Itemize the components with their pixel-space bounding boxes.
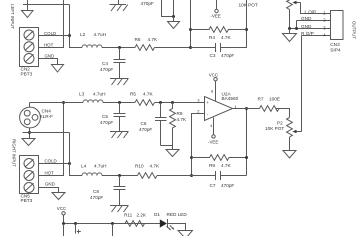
wire gnd pin2 row [297,21,331,29]
inductor L3 4.7uH [30,91,106,102]
node hot/L3 junction [62,101,65,104]
wire R O/P row [302,35,331,37]
wire L2 to R6 [102,47,135,49]
potentiometer P1 10K POT (cut) [239,0,301,29]
svg-text:VCC: VCC [57,206,66,211]
svg-text:GND: GND [45,182,55,187]
node R4 left [189,28,192,31]
connector CN5 PBT3 (right input) [20,156,39,204]
capacitor C3 470pF (feedback) [191,43,235,58]
svg-text:L4: L4 [81,163,87,168]
ground C5 (hatched) [110,132,129,139]
svg-text:C3: C3 [210,53,216,58]
svg-text:C5: C5 [102,114,108,119]
potentiometer P2 10K POT [265,118,302,138]
node rail VCC [62,222,65,225]
wire L4 to R10 [102,175,138,177]
svg-text:RIGHT INPUT: RIGHT INPUT [12,139,17,167]
wire R5 to op-amp pin 3 [155,102,205,104]
chassis ground (top left) [22,0,34,18]
svg-text:4.7uH: 4.7uH [94,163,107,168]
svg-text:XLR-F: XLR-F [40,114,54,119]
ground P2 [283,151,296,159]
svg-text:470pF: 470pF [221,53,234,58]
node C3 left / R6 junction [189,46,192,49]
svg-text:-VEE: -VEE [208,140,218,145]
svg-text:+: + [206,100,209,105]
svg-text:4.7uH: 4.7uH [94,32,107,37]
svg-text:4.7uH: 4.7uH [93,91,106,96]
node R9 right [245,156,248,159]
wire R6 to feedback node [155,47,191,49]
power -VEE (U2A pin 4) [208,118,218,145]
wire XLR top to L3 row [29,103,31,108]
svg-text:PBT3: PBT3 [21,198,33,203]
svg-text:470pF: 470pF [100,67,113,72]
ground C6/R8 [166,150,179,157]
resistor R11 2.2K [124,212,147,226]
power -VEE (top, cut op-amp pin) [211,0,221,18]
ground output common [283,29,297,42]
capacitor C8 470pF [90,176,126,206]
ground CN2 [52,65,64,73]
node rail C9 [74,222,77,225]
wire cold row CN2 [39,35,70,37]
svg-text:PBT3: PBT3 [21,71,33,76]
capacitor C6 470pF [139,103,167,146]
wire R10 to C7 node [157,175,192,177]
node R8 tap [171,101,174,104]
connector CN3 SIP4 [330,11,343,53]
node top cap junction [172,15,175,18]
capacitor C4 470pF [100,48,126,79]
svg-text:10K POT: 10K POT [239,2,258,7]
svg-text:R4: R4 [209,35,215,40]
wire inverting node riser x=190.5 [190,0,192,48]
svg-text:2.2K: 2.2K [137,212,148,217]
svg-text:VCC: VCC [209,72,218,77]
svg-text:R9: R9 [209,163,215,168]
resistor R5 4.7K [130,91,155,105]
svg-text:4.7K: 4.7K [221,35,232,40]
svg-text:4.7K: 4.7K [148,37,159,42]
svg-text:4.7K: 4.7K [221,163,232,168]
svg-text:SIP4: SIP4 [330,47,341,52]
svg-text:HOT: HOT [45,170,55,175]
svg-text:470pF: 470pF [139,127,152,132]
svg-text:GND: GND [45,54,55,59]
wire hot riser x=63.5 [39,0,64,48]
node C7 left [190,174,193,177]
svg-text:C6: C6 [141,121,147,126]
svg-text:COLD: COLD [45,159,57,164]
wire output riser x=246.5 (down) [246,109,248,176]
wire cold riser to L4 [70,133,83,176]
node gnd tie [295,27,298,30]
capacitor C9 (electrolytic, cut) [76,224,81,234]
svg-text:470pF: 470pF [221,183,234,188]
svg-text:C4: C4 [102,61,108,66]
svg-text:R6: R6 [135,37,141,42]
power VCC (bottom rail) [57,206,66,223]
node cold-right junction [68,162,71,165]
svg-text:LEFT INPUT: LEFT INPUT [10,4,15,29]
capacitor C5 470pF [100,103,126,132]
inductor L2 4.7uH [80,32,106,47]
svg-text:P2: P2 [277,121,283,126]
svg-text:HOT: HOT [44,42,54,47]
wire XLR shield down [29,128,31,139]
svg-text:R11: R11 [124,212,133,217]
power VCC (U2A pin 8) [209,72,218,101]
svg-text:COLD: COLD [44,31,56,36]
node output junction [245,107,248,110]
wire P2 bottom [289,137,291,151]
svg-text:CN4: CN4 [42,109,52,114]
wire gnd pin3 row [290,28,331,30]
svg-text:470pF: 470pF [100,120,113,125]
connector CN4 XLR-F [20,107,54,128]
wire rail drop x=112.5 (cut) [112,224,114,237]
ground CN5 [52,193,65,200]
wire cold riser x=69.5 [70,5,83,48]
svg-text:R10: R10 [135,163,144,168]
svg-text:GND: GND [301,16,312,21]
wire C6/R8 bottom [161,146,173,150]
wire D1 to ground [168,224,186,231]
node R9 left [190,156,193,159]
svg-text:L3: L3 [79,91,85,96]
node XLR cold [28,131,31,134]
node cold-left junction [68,34,71,37]
ground LED (cut) [178,231,193,239]
node C8 tap [118,174,121,177]
wire output riser x=246.5 (top) [221,0,247,48]
wire pin2 to feedback node [192,114,205,176]
resistor R8 4.7K [170,103,187,146]
svg-text:OUTPUT: OUTPUT [352,21,357,39]
wire CN5 hot riser x=63.5 [39,103,64,176]
ground C4 (hatched) [110,79,129,86]
svg-text:R8: R8 [177,111,183,116]
op-amp U2A BA4560 [197,89,238,129]
wire R O/P riser x=301.5 [301,36,303,132]
svg-text:RED LED: RED LED [167,212,188,217]
wire cold feed (y=132.5) [23,132,70,134]
resistor R9 4.7K (feedback) [192,155,247,169]
node P1 bottom [288,27,291,30]
wire R11 to D1 [145,223,160,225]
resistor R4 4.7K (feedback) [191,27,247,40]
wire op-amp output [233,108,260,110]
wire rail drop x=63.5 (cut) [63,224,65,237]
svg-text:GND: GND [301,24,312,29]
wire R7 to P2 [276,109,290,118]
capacitor C7 470pF (feedback) [192,171,247,188]
svg-text:C8: C8 [93,189,99,194]
ground (top middle) [168,17,180,29]
svg-text:-VEE: -VEE [211,13,221,18]
wire L3 to R5 [103,102,135,104]
svg-text:4.7K: 4.7K [177,117,188,122]
connector CN2 PBT3 (left input) [20,28,39,77]
capacitor C2 fragment 470pF (top, cut) [141,0,174,17]
node C4 tap [118,46,121,49]
svg-text:C7: C7 [210,183,216,188]
resistor R10 4.7K [135,163,160,178]
node R4 right [245,28,248,31]
svg-text:470pF: 470pF [90,195,103,200]
wire bottom rail [64,223,161,225]
resistor R6 4.7K [135,37,159,50]
svg-text:10K POT: 10K POT [265,126,284,131]
svg-text:BA4560: BA4560 [222,96,239,101]
svg-text:100E: 100E [269,96,280,101]
wire CN5 gnd [39,188,59,193]
ground (hatched, top x=118.5) [110,0,128,11]
ground XLR [22,139,35,146]
wire cold-to-ground (y=4.5) [23,4,70,6]
svg-text:D1: D1 [154,212,160,217]
node C6 tap [159,101,162,104]
wire P1 wiper to L O/P [301,3,331,14]
svg-text:L2: L2 [80,32,86,37]
svg-text:L O/P: L O/P [305,10,317,15]
ground C8 (hatched) [110,206,129,213]
node C5 tap [118,101,121,104]
node rail R11 [111,222,114,225]
wire CN2 gnd [39,59,58,65]
svg-text:R5: R5 [130,91,136,96]
resistor R7 100E [258,96,280,111]
svg-text:R O/P: R O/P [301,31,314,36]
inductor L4 4.7uH [81,163,107,175]
svg-text:470pF: 470pF [141,1,154,6]
diode D1 RED LED [154,212,187,230]
svg-text:R7: R7 [258,96,264,101]
wire CN5 cold row [39,163,70,165]
svg-text:4.7K: 4.7K [150,163,161,168]
svg-text:4.7K: 4.7K [143,91,154,96]
